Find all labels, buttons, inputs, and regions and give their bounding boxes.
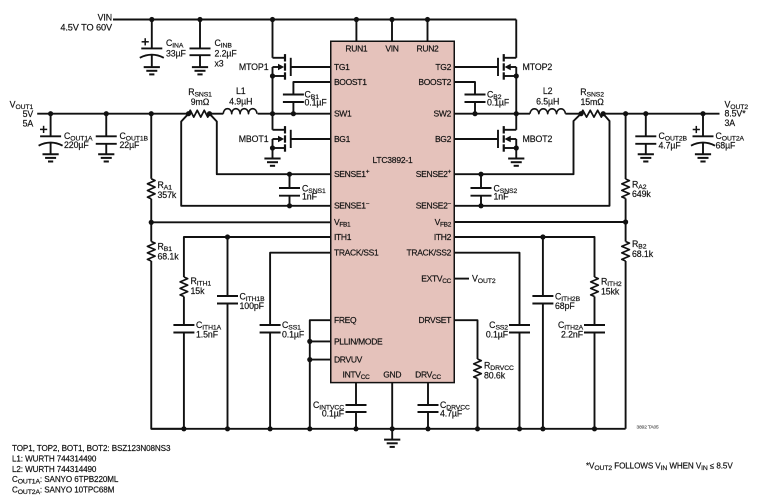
wire VOUT2 rail: [603, 113, 719, 115]
node PLLIN dot: [307, 339, 312, 344]
wire ground rail: [151, 428, 625, 430]
svg-text:ITH1: ITH1: [334, 232, 352, 242]
EXTVCC VOUT2 label: [472, 273, 496, 285]
node SW2-MOS dot: [514, 111, 519, 116]
wire VIN stub: [391, 20, 393, 42]
wire COUT1B bottom: [105, 144, 107, 154]
capacitor CINA 33uF: [140, 38, 187, 58]
wire DRVSET: [454, 320, 477, 359]
capacitor COUT2A 68uF: [691, 126, 744, 150]
svg-text:BG1: BG1: [334, 134, 351, 144]
svg-text:4.5V TO 60V: 4.5V TO 60V: [60, 23, 113, 33]
node COUT2A dot: [700, 111, 705, 116]
svg-text:GND: GND: [383, 369, 401, 379]
transistor MTOP1: [239, 54, 291, 80]
wire RDRVCC bottom: [477, 379, 479, 429]
svg-text:SENSE2−​: SENSE2−​: [416, 200, 452, 210]
node CITH1B rail dot: [225, 426, 230, 431]
wire ITH2: [454, 237, 594, 277]
svg-text:0.1µF: 0.1µF: [322, 409, 345, 419]
wire CSS1 bottom: [269, 333, 271, 429]
wire CINB bottom: [199, 55, 201, 67]
node ITH1-CITH1B dot: [225, 234, 230, 239]
resistor RB2 68.1k: [622, 239, 654, 261]
svg-text:MTOP1: MTOP1: [239, 62, 269, 72]
node CSNS2 top dot: [478, 172, 483, 177]
svg-text:PLLIN/MODE: PLLIN/MODE: [334, 336, 383, 346]
wire CSS2 bottom: [519, 333, 521, 429]
node GND rail dot: [390, 426, 395, 431]
wire CITH1B bottom: [227, 304, 229, 429]
svg-text:1nF: 1nF: [494, 192, 510, 202]
wire RA1 top: [150, 114, 152, 179]
svg-text:100pF: 100pF: [240, 301, 265, 311]
wire MBOT1 source: [272, 148, 274, 159]
svg-text:0.1µF: 0.1µF: [305, 98, 328, 108]
capacitor CSS1 0.1uF: [260, 320, 305, 339]
wire MTOP1 drain: [272, 20, 274, 58]
wire BOOST1: [293, 82, 330, 95]
svg-text:BOOST2: BOOST2: [418, 77, 451, 87]
IC left pin labels: [334, 62, 383, 365]
svg-text:DRVSET: DRVSET: [419, 315, 452, 325]
node CSNS1 top dot: [287, 172, 292, 177]
node CSS2 rail dot: [517, 426, 522, 431]
resistor RA1 357k: [147, 179, 176, 200]
wire TG2: [454, 66, 498, 68]
ground GND pin: [384, 440, 400, 447]
wire RB1 bottom: [151, 261, 184, 429]
capacitor CDRVCC 4.7uF: [418, 400, 471, 419]
svg-text:SENSE1−​: SENSE1−​: [334, 200, 370, 210]
wire CITH2A bottom: [594, 333, 596, 429]
wire RA1-RB1: [150, 199, 152, 242]
svg-text:1.5nF: 1.5nF: [196, 329, 219, 339]
wire CINA bottom: [151, 55, 153, 67]
svg-text:MTOP2: MTOP2: [523, 62, 553, 72]
ground MBOT2: [508, 159, 524, 166]
wire MBOT1 drain: [272, 114, 274, 130]
node COUT2B dot: [643, 111, 648, 116]
wire RUN2 stub: [427, 20, 429, 42]
wire CINB top: [199, 20, 201, 49]
node VIN pin dot: [389, 17, 394, 22]
wire BOOST2: [454, 82, 475, 95]
wire PLLIN/MODE: [310, 340, 331, 342]
wire INTVCC stub: [355, 383, 357, 405]
capacitor CINTVCC 0.1uF: [313, 400, 366, 419]
svg-text:VIN: VIN: [98, 12, 112, 22]
resistor RA2 649k: [622, 179, 652, 199]
svg-text:9mΩ: 9mΩ: [191, 97, 210, 107]
wire COUT2A bottom: [702, 143, 704, 154]
capacitor CB1 0.1uF: [283, 89, 327, 107]
VOUT1 label: [10, 100, 34, 129]
wire RUN1 stub: [355, 20, 357, 42]
node CITH2A rail dot: [592, 426, 597, 431]
wire MTOP2 drain: [515, 20, 517, 58]
wire TG1: [291, 66, 331, 68]
svg-text:LTC3892-1: LTC3892-1: [372, 155, 413, 165]
node RSNS2 right dot: [601, 111, 606, 116]
wire CINA top: [151, 20, 153, 49]
svg-text:15k: 15k: [191, 286, 206, 296]
svg-text:SW2: SW2: [434, 109, 452, 119]
wire EXTVCC: [454, 278, 469, 280]
wire COUT2B bottom: [645, 144, 647, 154]
capacitor CB2 0.1uF: [465, 89, 510, 107]
svg-text:5A: 5A: [23, 119, 34, 129]
capacitor CITH1A 1.5nF: [173, 320, 221, 339]
wire COUT1B top: [105, 114, 107, 137]
wire CITH1A bottom: [183, 333, 185, 429]
node ITH2-CITH2B dot: [540, 234, 545, 239]
svg-text:80.6k: 80.6k: [484, 370, 506, 380]
wire COUT2A top: [702, 114, 704, 137]
wire SENSE2+ tap: [454, 114, 581, 175]
capacitor COUT1B 22uF: [96, 131, 149, 150]
wire VOUT1 rail: [37, 113, 188, 115]
svg-text:220µF: 220µF: [64, 140, 89, 150]
resistor RITH2 15kk: [591, 277, 622, 297]
svg-text:DRVUV: DRVUV: [334, 355, 363, 365]
wire CITH2B top: [542, 237, 544, 296]
wire SENSE1+ tap: [210, 114, 331, 175]
wire COUT2B top: [645, 114, 647, 137]
svg-text:15mΩ: 15mΩ: [580, 97, 604, 107]
ground CINB: [192, 67, 208, 74]
wire CITH1B top: [227, 237, 229, 296]
VIN input label: [60, 12, 113, 32]
inductor L1 4.9uH: [223, 86, 257, 114]
svg-text:TRACK/SS1: TRACK/SS1: [334, 248, 379, 258]
svg-text:4.7µF: 4.7µF: [440, 409, 463, 419]
svg-text:SENSE1+​: SENSE1+​: [334, 169, 370, 179]
svg-text:L1: WURTH 744314490: L1: WURTH 744314490: [12, 454, 97, 463]
capacitor CSNS2 1nF: [471, 184, 518, 202]
node RSNS2 left dot: [578, 111, 583, 116]
IC bottom pin labels: [343, 369, 442, 381]
svg-text:L2: L2: [543, 86, 553, 96]
node DRVUV dot: [307, 357, 312, 362]
wire MBOT2 source: [515, 148, 517, 159]
wire MTOP2 source to SW2: [515, 76, 517, 114]
resistor RB1 68.1k: [147, 242, 179, 262]
capacitor CINB 2.2uF x3: [190, 38, 238, 68]
node VIN-CINA dot: [149, 17, 154, 22]
wire CSNS1 top: [289, 174, 291, 188]
svg-text:22µF: 22µF: [120, 140, 141, 150]
BOM notes: [12, 444, 171, 496]
capacitor CITH1B 100pF: [217, 291, 265, 311]
svg-text:68pF: 68pF: [555, 301, 575, 311]
wire L2-RSNS2: [565, 113, 581, 115]
wire VFB2: [454, 221, 625, 223]
figure number: [637, 424, 660, 430]
node RA1 dot: [149, 111, 154, 116]
wire RA2 top: [625, 114, 627, 179]
wire RITH2-CITH2A: [594, 297, 596, 326]
node CDRVCC rail dot: [425, 426, 430, 431]
svg-text:x3: x3: [215, 58, 224, 68]
wire CSNS2 top: [480, 174, 482, 188]
transistor MBOT1: [239, 126, 291, 152]
node RDRVCC rail dot: [475, 426, 480, 431]
node RUN1 dot: [354, 17, 359, 22]
wire CB2 bottom: [474, 102, 476, 114]
wire ITH1: [184, 237, 331, 277]
svg-text:2.2nF: 2.2nF: [561, 329, 584, 339]
wire SENSE2- tap: [454, 114, 609, 206]
IC U1 LTC3892-1 body: [331, 41, 455, 382]
wire RA2-RB2: [625, 199, 627, 242]
node VIN-CINB dot: [197, 17, 202, 22]
resistor RDRVCC 80.6k: [474, 359, 514, 380]
wire TRACK/SS2: [454, 253, 519, 325]
transistor MTOP2: [498, 54, 552, 80]
svg-text:VIN: VIN: [385, 43, 398, 53]
VOUT2 label: [725, 99, 749, 128]
svg-text:TG1: TG1: [334, 62, 350, 72]
svg-text:RUN2: RUN2: [417, 43, 440, 53]
capacitor CSS2 0.1uF: [486, 320, 530, 339]
node VIN-MTOP1 dot: [270, 17, 275, 22]
IC right pin labels: [407, 62, 452, 325]
capacitor CITH2B 68pF: [532, 291, 580, 311]
node COUT1A dot: [48, 111, 53, 116]
svg-text:TOP1, TOP2, BOT1, BOT2: BSZ123: TOP1, TOP2, BOT1, BOT2: BSZ123N08NS3: [12, 444, 171, 453]
resistor RSNS2 15mohm: [580, 87, 604, 117]
wire CITH2B bottom: [542, 304, 544, 429]
capacitor COUT1A 220uF: [39, 126, 93, 150]
svg-text:BG2: BG2: [435, 134, 452, 144]
svg-text:1nF: 1nF: [302, 192, 318, 202]
wire RITH1-CITH1A: [183, 297, 185, 326]
node COUT1B dot: [104, 111, 109, 116]
node SW1-CB1 dot: [291, 111, 296, 116]
svg-text:0.1µF: 0.1µF: [486, 329, 509, 339]
svg-text:4.9µH: 4.9µH: [229, 97, 252, 107]
svg-text:TG2: TG2: [435, 62, 451, 72]
svg-text:L1: L1: [236, 86, 246, 96]
wire CSNS2 bottom: [480, 196, 482, 206]
wire CB1 bottom: [292, 102, 294, 114]
node RA2 dot: [623, 111, 628, 116]
wire GND down: [391, 429, 393, 440]
svg-text:MBOT1: MBOT1: [239, 134, 269, 144]
wire SW1: [258, 113, 331, 115]
svg-text:RUN1: RUN1: [345, 43, 368, 53]
svg-text:15kk: 15kk: [601, 287, 620, 297]
svg-text:357k: 357k: [158, 190, 177, 200]
svg-text:TRACK/SS2: TRACK/SS2: [407, 248, 452, 258]
svg-text:3892 TA05: 3892 TA05: [637, 424, 660, 430]
wire MBOT2 drain: [515, 114, 517, 130]
svg-text:ITH2: ITH2: [434, 232, 452, 242]
svg-text:SENSE2+​: SENSE2+​: [416, 169, 452, 179]
node SW1-MOS dot: [270, 111, 275, 116]
wire DRVCC stub: [427, 383, 429, 405]
transistor MBOT2: [498, 126, 553, 152]
node CITH1A rail dot: [181, 426, 186, 431]
wire CINTVCC bottom: [355, 412, 357, 429]
svg-text:5V: 5V: [23, 109, 34, 119]
svg-text:MBOT2: MBOT2: [523, 134, 553, 144]
wire SENSE1- tap: [181, 114, 331, 206]
svg-text:649k: 649k: [632, 189, 651, 199]
svg-text:0.1µF: 0.1µF: [282, 329, 305, 339]
svg-text:SW1: SW1: [334, 109, 352, 119]
svg-text:0.1µF: 0.1µF: [487, 98, 510, 108]
ground COUT2B: [638, 154, 654, 161]
wire COUT1A top: [50, 114, 52, 137]
node CSNS1 bottom dot: [287, 203, 292, 208]
wire CDRVCC bottom: [427, 412, 429, 429]
ground COUT1A: [43, 154, 59, 161]
svg-text:6.5µH: 6.5µH: [536, 97, 559, 107]
svg-text:33µF: 33µF: [166, 49, 187, 59]
node RUN2 dot: [425, 17, 430, 22]
svg-text:2.2µF: 2.2µF: [215, 49, 238, 59]
svg-text:L2: WURTH 744314490: L2: WURTH 744314490: [12, 465, 97, 474]
wire BG1: [291, 138, 331, 140]
wire RB2 bottom: [625, 261, 627, 429]
node VFB1 dot: [149, 220, 154, 225]
node FREQ rail dot: [307, 426, 312, 431]
svg-text:4.7µF: 4.7µF: [659, 140, 682, 150]
capacitor CSNS1 1nF: [279, 184, 326, 202]
wire DRVUV: [310, 359, 331, 361]
node CINTVCC rail dot: [353, 426, 358, 431]
node CITH2B rail dot: [540, 426, 545, 431]
wire BG2: [454, 138, 498, 140]
footnote: [586, 461, 733, 472]
wire TRACK/SS1: [270, 253, 331, 325]
node VFB2 dot: [623, 219, 628, 224]
wire VIN rail: [113, 19, 516, 21]
ground CINA: [144, 67, 160, 74]
wire COUT1A bottom: [50, 143, 52, 154]
ground COUT1B: [98, 154, 114, 161]
wire GND stub: [391, 383, 393, 429]
svg-text:68.1k: 68.1k: [158, 252, 180, 262]
wire SW2: [454, 113, 530, 115]
inductor L2 6.5uH: [530, 86, 565, 114]
wire MTOP1 source to SW1: [272, 76, 274, 114]
capacitor COUT2B 4.7uF: [635, 131, 687, 150]
wire FREQ: [310, 320, 331, 429]
node CSS1 rail dot: [268, 426, 273, 431]
resistor RSNS1 9mohm: [188, 87, 212, 117]
ground MBOT1: [264, 159, 280, 166]
wire VFB1: [151, 221, 331, 223]
wire CSNS1 bottom: [289, 196, 291, 206]
IC top pin labels: [345, 43, 439, 53]
node RSNS1 right dot: [207, 111, 212, 116]
svg-text:BOOST1: BOOST1: [334, 77, 367, 87]
wire RSNS1-L1: [210, 113, 224, 115]
svg-text:FREQ: FREQ: [334, 315, 357, 325]
capacitor CITH2A 2.2nF: [558, 320, 605, 339]
node CSNS2 bottom dot: [478, 203, 483, 208]
svg-text:3A: 3A: [725, 118, 736, 128]
svg-text:68.1k: 68.1k: [632, 249, 654, 259]
svg-text:68µF: 68µF: [716, 140, 737, 150]
resistor RITH1 15k: [180, 276, 211, 297]
ground COUT2A: [695, 154, 711, 161]
node SW2-CB2 dot: [472, 111, 477, 116]
node RSNS1 left dot: [186, 111, 191, 116]
